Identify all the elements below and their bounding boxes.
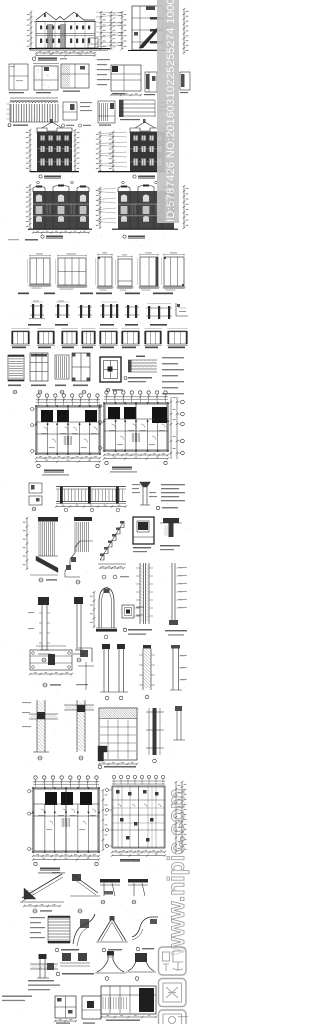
small square plan detail with dark core xyxy=(122,605,134,618)
balcony railing elevation long xyxy=(56,486,126,488)
detail stair core cluster xyxy=(146,74,150,89)
front elevation B dimension fan xyxy=(98,188,116,190)
second floor plan right xyxy=(105,391,108,394)
side elevation A title xyxy=(44,176,61,178)
extra fan column top right xyxy=(110,12,112,49)
window detail M3 xyxy=(140,257,158,286)
general notes bottom left xyxy=(2,996,32,997)
jamb section pair S1 xyxy=(32,304,34,318)
edge trim detail xyxy=(175,706,182,711)
front elevation A ground xyxy=(28,228,92,230)
attic plan left bubbles xyxy=(106,789,109,792)
wall insulation strip detail xyxy=(139,563,141,624)
side elevation B facade xyxy=(130,128,165,133)
front elevation B ground xyxy=(112,228,178,230)
side elevation B dimension fan xyxy=(100,132,127,134)
west elevation ground line xyxy=(29,48,110,50)
sheet background xyxy=(0,0,191,1024)
side elevation A facade xyxy=(37,128,72,133)
flue detail hatched xyxy=(143,645,151,649)
curve moulding detail 2 xyxy=(132,917,158,937)
watermark cjk glyph ni xyxy=(159,947,187,975)
rail bracket detail 1 xyxy=(100,879,120,883)
rail bracket detail 2 xyxy=(128,879,148,883)
building section outline xyxy=(132,6,163,50)
square opening detail thick frame xyxy=(100,357,121,382)
dimension column between row4 plans xyxy=(102,790,104,850)
notes text block xyxy=(162,357,184,358)
west elevation body xyxy=(36,22,95,49)
balcony detail small xyxy=(29,483,42,493)
detail box 2 xyxy=(82,996,101,1019)
window label row 1 xyxy=(18,293,29,295)
notes rows xyxy=(28,980,54,981)
jamb section pair S4 xyxy=(102,304,104,318)
jamb section wide S6 xyxy=(148,306,150,319)
far right dimension column xyxy=(183,9,185,53)
watermark gray band xyxy=(157,0,179,223)
roof flashing slope detail 2 xyxy=(72,874,98,893)
blob detail right xyxy=(62,953,71,961)
side elevation A dimension stack xyxy=(29,130,31,171)
svg-text:ID:5787426 NO:2016031022525527: ID:5787426 NO:20160310225255274 1000 xyxy=(165,0,177,222)
grille window detail V2 xyxy=(30,353,48,381)
wall section side notes xyxy=(22,702,31,703)
bottom label row xyxy=(56,972,60,976)
front elevation B title xyxy=(128,236,145,238)
baluster detail V3 xyxy=(55,355,69,379)
flue detail right xyxy=(172,648,174,690)
detail labels row xyxy=(55,948,59,952)
building section floor slabs xyxy=(150,17,163,20)
watermark logo wang xyxy=(159,1010,187,1024)
window strip3 units xyxy=(12,331,29,344)
window detail M2 xyxy=(118,259,132,286)
front elevation B right dimension column xyxy=(183,186,185,228)
window label row 3 xyxy=(12,347,26,349)
eave pagoda detail 1 xyxy=(97,953,124,972)
detail lintel plan xyxy=(111,65,141,91)
west elevation right dimension fan xyxy=(96,12,118,13)
coping stripe detail xyxy=(48,915,70,917)
west elevation windows xyxy=(40,26,42,30)
curve moulding detail xyxy=(73,914,95,944)
stair slab section xyxy=(119,99,155,101)
kitchen plan dark fixture xyxy=(44,67,49,71)
window detail labels V xyxy=(8,385,21,387)
bottom wide detail box xyxy=(101,986,156,1014)
roof node label row xyxy=(98,765,102,769)
west elevation porch xyxy=(88,38,98,48)
watermark tiny caption xyxy=(178,1016,188,1017)
attic plan dark marks xyxy=(116,790,120,794)
stair baluster detail 1 xyxy=(38,517,58,521)
detail bath plan xyxy=(61,64,89,88)
window detail C1 xyxy=(30,258,50,284)
wall section detail 2 xyxy=(64,704,94,706)
front elevation B facade xyxy=(118,186,130,192)
gable slope detail xyxy=(98,918,126,941)
lintel plan detail xyxy=(30,650,72,670)
thin wall strip detail xyxy=(171,563,173,620)
frame box detail xyxy=(133,517,154,544)
west elevation title xyxy=(38,58,57,60)
window label row 2 xyxy=(28,324,41,326)
tile detail left ticks xyxy=(7,103,10,105)
jamb section pair S2 xyxy=(57,304,59,318)
tee detail xyxy=(163,518,179,523)
building section ground xyxy=(128,50,168,52)
rain pipe detail xyxy=(142,482,144,505)
window detail M4 xyxy=(164,257,184,286)
jamb section pair S5 xyxy=(127,305,129,318)
arched window detail xyxy=(99,588,114,629)
roof flashing slope detail 1 xyxy=(22,874,62,898)
west elevation roof xyxy=(36,12,95,20)
detail right margin cluster xyxy=(181,74,185,87)
wall section detail 1 xyxy=(29,713,58,715)
attic plan door arcs xyxy=(118,804,121,807)
tile detail circled labels xyxy=(61,124,64,127)
detail kitchen plan xyxy=(34,66,58,90)
sill board section A-A xyxy=(136,356,145,358)
attic plan title xyxy=(120,859,140,861)
note text under front elevation xyxy=(8,239,19,240)
roof tile detail label xyxy=(13,125,28,126)
window detail C2 xyxy=(58,258,86,285)
west elevation left dimension stack xyxy=(30,12,32,49)
front elevation A facade xyxy=(33,186,45,192)
eave pagoda detail 2 xyxy=(128,955,154,971)
mullion section detail xyxy=(153,708,157,755)
side elevation B title xyxy=(138,176,155,178)
detail toilet plan xyxy=(9,64,28,90)
scan speckle noise xyxy=(1,4,191,1021)
cross window detail V4 xyxy=(72,353,90,381)
eave section notes xyxy=(80,102,92,103)
roof tile elevation detail xyxy=(10,101,58,103)
front elevation A title xyxy=(46,236,63,238)
front elevation A dimension stack xyxy=(29,185,31,229)
corner jamb detail right margin xyxy=(176,303,188,316)
louver detail V1 xyxy=(8,355,24,381)
side elevation B ground xyxy=(98,171,172,173)
attic floor plan right xyxy=(112,775,115,778)
window jamb plan detail xyxy=(99,708,137,760)
side elevation B windows xyxy=(134,136,138,141)
watermark cjk glyph tu xyxy=(159,979,187,1007)
side elevation A windows xyxy=(41,136,45,141)
building section stair flight xyxy=(139,27,158,48)
third floor plan left xyxy=(34,776,37,779)
right plan right dimension column xyxy=(170,397,172,459)
jamb section pair S3 xyxy=(80,305,82,318)
coping stripe detail text xyxy=(30,917,45,918)
west elevation bottom dimensions xyxy=(36,52,95,54)
newel post detail 1 xyxy=(38,597,49,605)
marker circles above front facades xyxy=(37,181,40,184)
attic plan bottom dims xyxy=(112,851,165,853)
notes list left of lintel plan xyxy=(97,59,110,60)
building section right dimension stack xyxy=(165,8,167,50)
corner flashing detail xyxy=(78,648,92,662)
newel post detail 2 xyxy=(74,597,83,604)
svg-text:www.nipic.com: www.nipic.com xyxy=(163,788,189,956)
attic plan extra lines xyxy=(112,807,165,809)
detail box 1 xyxy=(55,996,76,1018)
side elevation B roof peak xyxy=(135,122,155,128)
right plan dimension stack far right xyxy=(175,782,177,852)
eave section small xyxy=(63,102,77,120)
side elevation A roof peak xyxy=(42,122,62,128)
side elevation B right dims xyxy=(167,130,169,171)
small stair plan detail xyxy=(98,101,115,123)
stair baluster detail 2 xyxy=(74,517,92,521)
second floor plan left xyxy=(37,394,40,397)
west elevation recessed bays xyxy=(47,24,53,48)
window detail M1 xyxy=(98,257,112,286)
slope detail labels xyxy=(33,909,37,913)
flue detail pair xyxy=(102,644,110,649)
vent pipe roof detail xyxy=(30,963,58,965)
stair steps section detail xyxy=(100,521,124,560)
side elevation A right dims xyxy=(74,130,76,171)
side elevation A ground xyxy=(30,171,79,173)
rain hopper notes xyxy=(161,484,185,485)
